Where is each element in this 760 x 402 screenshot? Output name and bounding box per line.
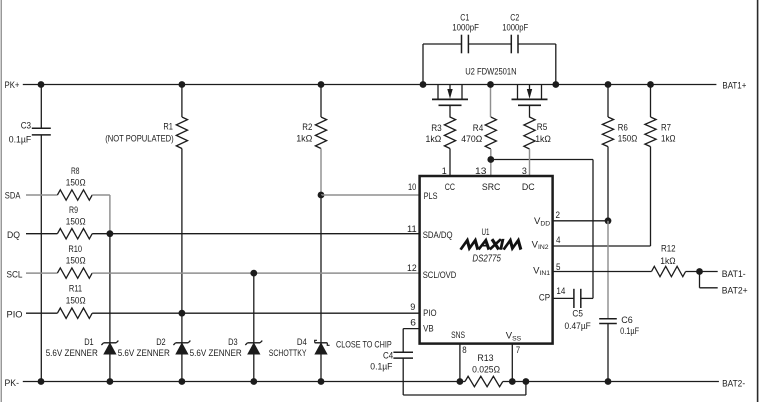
pin 2 VDD <box>534 210 560 228</box>
svg-text:PLS: PLS <box>424 191 438 202</box>
op-amp U1 box <box>420 176 553 344</box>
svg-text:150Ω: 150Ω <box>66 295 86 306</box>
pin 13 SRC <box>475 166 500 193</box>
diode D1 <box>46 337 119 359</box>
capacitor C2 <box>502 12 528 53</box>
svg-text:D4: D4 <box>297 337 307 348</box>
svg-text:0.1µF: 0.1µF <box>370 362 392 373</box>
node VDD junction <box>605 217 612 224</box>
capacitor C1 <box>452 12 479 53</box>
capacitor C6 <box>599 315 639 337</box>
svg-text:9: 9 <box>410 302 415 313</box>
pin 1 CC <box>442 166 455 193</box>
svg-text:12: 12 <box>407 263 417 274</box>
svg-text:SCL/OVD: SCL/OVD <box>423 270 457 281</box>
svg-text:BAT1+: BAT1+ <box>722 80 746 91</box>
node DQ junction <box>107 230 114 237</box>
svg-text:VB: VB <box>423 324 434 335</box>
svg-text:R12: R12 <box>661 244 676 255</box>
wire R12 to BAT1- <box>686 271 718 273</box>
diode D3 branch wire <box>253 273 255 381</box>
svg-text:PIO: PIO <box>423 308 437 319</box>
wire R8 to D1 branch <box>92 195 110 234</box>
svg-text:6: 6 <box>410 317 416 328</box>
pin 6 VB <box>410 317 433 334</box>
svg-text:150Ω: 150Ω <box>66 216 86 227</box>
diode D2 <box>118 337 191 359</box>
svg-text:BAT2-: BAT2- <box>722 379 745 390</box>
svg-text:1kΩ: 1kΩ <box>426 134 442 145</box>
svg-text:1kΩ: 1kΩ <box>661 134 676 145</box>
svg-text:1000pF: 1000pF <box>502 23 528 34</box>
svg-text:C4: C4 <box>383 350 393 361</box>
resistor R4 <box>461 85 496 160</box>
svg-text:5.6V ZENNER: 5.6V ZENNER <box>118 348 170 359</box>
wire PIO to pin9 <box>92 312 419 314</box>
resistor R3 <box>426 117 456 149</box>
svg-text:C5: C5 <box>572 309 583 320</box>
pin 7 VSS <box>506 331 522 356</box>
svg-text:SRC: SRC <box>482 182 501 193</box>
wire R1 to PK- <box>181 149 183 382</box>
svg-text:1: 1 <box>442 166 447 177</box>
transistor U2a <box>432 85 468 118</box>
svg-text:PK+: PK+ <box>5 80 20 91</box>
svg-text:U1: U1 <box>482 227 490 238</box>
pin 12 SCL/OVD <box>407 263 456 281</box>
pin 4 VIN2 <box>532 235 561 251</box>
node PK+ <box>5 80 20 91</box>
node PLS junction <box>318 192 325 199</box>
pin 14 CP <box>539 286 566 303</box>
wire PLS <box>321 194 420 196</box>
svg-text:1000pF: 1000pF <box>452 23 479 34</box>
wire PK+ / BAT1+ rail <box>23 84 717 86</box>
wire SRC stub <box>490 160 492 177</box>
node BAT2- <box>722 379 745 390</box>
wire SRC to C5 vertical <box>592 160 594 299</box>
resistor R2 <box>296 85 326 149</box>
wire C1 left branch <box>422 44 424 85</box>
svg-text:10: 10 <box>408 182 416 193</box>
wire C1-C2 top segment a <box>423 43 462 45</box>
transistor U2b <box>512 85 548 118</box>
svg-text:SDA: SDA <box>5 191 21 202</box>
svg-text:D1: D1 <box>84 337 94 348</box>
svg-text:0.47µF: 0.47µF <box>565 321 591 332</box>
svg-text:R5: R5 <box>537 122 548 133</box>
svg-text:R11: R11 <box>69 284 82 295</box>
svg-text:BAT2+: BAT2+ <box>722 285 748 296</box>
U1 part number DS2775 <box>472 254 501 265</box>
capacitor C3 <box>9 85 51 382</box>
pin 5 VIN1 <box>533 262 560 277</box>
svg-text:C3: C3 <box>21 120 31 131</box>
svg-text:1kΩ: 1kΩ <box>296 134 312 145</box>
resistor R13 <box>465 353 503 387</box>
pin 8 SNS <box>451 330 467 356</box>
svg-text:1kΩ: 1kΩ <box>535 134 551 145</box>
svg-text:0.1µF: 0.1µF <box>620 326 639 337</box>
transistor U2 label <box>465 66 517 77</box>
wire VB <box>403 329 419 353</box>
node BAT1+ <box>722 80 746 91</box>
wire C4 to sub-bus <box>403 358 526 395</box>
svg-text:R10: R10 <box>68 244 82 255</box>
svg-text:C6: C6 <box>621 315 633 326</box>
resistor R6 <box>602 85 637 221</box>
pin 10 PLS <box>408 182 438 202</box>
svg-text:470Ω: 470Ω <box>461 134 482 145</box>
junction dots top rail <box>38 81 654 88</box>
wire SNS stub <box>459 344 461 382</box>
node SCL <box>7 270 23 281</box>
svg-text:R4: R4 <box>473 123 484 134</box>
node SRC junction <box>487 156 494 163</box>
capacitor C4 <box>370 350 413 372</box>
label close to chip <box>336 339 392 350</box>
wire SCL to pin12 <box>92 272 419 274</box>
wire SRC to C5 horizontal <box>491 159 593 161</box>
capacitor C5 <box>565 289 591 332</box>
svg-text:5.6V ZENNER: 5.6V ZENNER <box>46 348 98 359</box>
svg-text:150Ω: 150Ω <box>66 177 86 188</box>
wire VSS stub <box>511 344 513 382</box>
node BAT1- <box>722 269 746 280</box>
U1 MAXIM logo <box>462 240 523 248</box>
svg-text:U2 FDW2501N: U2 FDW2501N <box>465 66 517 77</box>
svg-text:SDA/DQ: SDA/DQ <box>423 230 453 241</box>
wire C2 top segment c <box>518 43 556 45</box>
svg-text:11: 11 <box>407 224 417 235</box>
resistor R9 <box>57 205 92 239</box>
wire R2 branch to PK- <box>320 195 322 382</box>
node BAT2+ <box>722 285 748 296</box>
svg-text:CP: CP <box>539 293 550 304</box>
svg-text:3: 3 <box>522 166 527 177</box>
wire R7 to VIN2 <box>553 147 651 246</box>
svg-text:SCL: SCL <box>7 270 23 281</box>
svg-text:R9: R9 <box>69 205 78 216</box>
wire CP to C5 <box>553 297 574 299</box>
wire R2 to PLS dot <box>320 149 322 196</box>
svg-text:7: 7 <box>516 345 520 356</box>
wire SCL lead <box>26 272 57 274</box>
resistor R5 <box>524 117 551 176</box>
node SDA <box>5 191 21 202</box>
svg-text:13: 13 <box>475 166 486 177</box>
svg-text:D2: D2 <box>156 337 166 348</box>
wire C5 to SRC vertical <box>581 297 593 299</box>
svg-text:2: 2 <box>556 210 561 221</box>
pin 11 SDA/DQ <box>407 224 453 241</box>
svg-text:DC: DC <box>522 182 535 193</box>
resistor R8 <box>57 166 92 200</box>
svg-text:R13: R13 <box>477 353 493 364</box>
wire PK- / BAT2- rail <box>23 381 719 383</box>
resistor R7 <box>645 85 676 147</box>
node SCL junction <box>250 270 257 277</box>
wire DQ to pin11 <box>92 233 419 235</box>
svg-text:D3: D3 <box>228 337 238 348</box>
U1 designator <box>482 227 490 238</box>
wire VIN1 to R12 <box>553 271 652 273</box>
svg-text:DS2775: DS2775 <box>472 254 501 265</box>
node BAT1- junction <box>696 268 703 275</box>
svg-text:CLOSE TO CHIP: CLOSE TO CHIP <box>336 339 392 350</box>
diode D1 branch wire <box>109 234 111 382</box>
junction dots bottom rail <box>38 378 612 385</box>
svg-text:0.1µF: 0.1µF <box>9 134 32 145</box>
diode D3 <box>190 337 263 359</box>
svg-text:BAT1-: BAT1- <box>722 269 746 280</box>
wire PIO lead <box>26 312 57 314</box>
svg-text:5.6V ZENNER: 5.6V ZENNER <box>190 348 242 359</box>
wire VDD to R6 <box>553 220 608 222</box>
wire SDA lead <box>26 194 57 196</box>
svg-text:CC: CC <box>445 182 455 193</box>
pin 3 DC <box>522 166 535 193</box>
svg-text:150Ω: 150Ω <box>618 134 638 145</box>
svg-text:(NOT POPULATED): (NOT POPULATED) <box>105 134 174 145</box>
wire C6 to BAT2- <box>607 324 609 382</box>
svg-text:14: 14 <box>556 286 565 297</box>
pin 9 PIO <box>410 302 436 319</box>
svg-text:0.025Ω: 0.025Ω <box>472 365 500 376</box>
resistor R1 <box>105 85 187 149</box>
svg-text:R3: R3 <box>431 123 442 134</box>
svg-text:PIO: PIO <box>7 310 23 321</box>
wire C2 right branch <box>555 44 557 85</box>
wire BAT2+ tap <box>700 272 718 288</box>
wire R3 to pin1 <box>449 149 451 177</box>
wire DQ lead <box>26 233 57 235</box>
node PIO junction <box>179 310 186 317</box>
svg-text:R7: R7 <box>661 123 671 134</box>
resistor R11 <box>57 284 92 319</box>
resistor R10 <box>57 244 92 278</box>
svg-text:R8: R8 <box>71 166 80 177</box>
svg-text:R2: R2 <box>302 122 312 133</box>
resistor R12 <box>652 244 686 277</box>
node PIO <box>7 310 23 321</box>
svg-text:4: 4 <box>556 235 561 246</box>
node DQ <box>7 230 20 241</box>
svg-text:1kΩ: 1kΩ <box>660 256 675 267</box>
svg-text:R6: R6 <box>618 123 628 134</box>
node PK- <box>5 378 20 389</box>
svg-text:SCHOTTKY: SCHOTTKY <box>269 348 307 359</box>
svg-text:150Ω: 150Ω <box>66 255 86 266</box>
svg-text:8: 8 <box>462 345 466 356</box>
diode D4 <box>269 337 330 359</box>
svg-text:PK-: PK- <box>5 378 20 389</box>
wire R6 to C6 <box>607 221 609 319</box>
svg-text:DQ: DQ <box>7 230 20 241</box>
wire C1-C2 top segment b <box>468 43 511 45</box>
svg-text:SNS: SNS <box>451 330 465 341</box>
svg-text:R1: R1 <box>163 122 173 133</box>
